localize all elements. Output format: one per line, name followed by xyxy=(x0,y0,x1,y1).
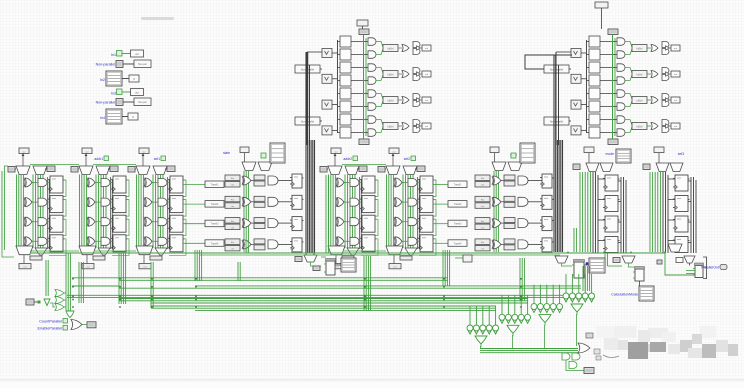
svg-text:out: out xyxy=(392,150,395,153)
output OR gate with outport xyxy=(71,320,96,330)
svg-text:cnt: cnt xyxy=(87,266,90,269)
svg-text:Transf3: Transf3 xyxy=(211,223,219,226)
svg-text:out: out xyxy=(425,125,428,128)
svg-text:out: out xyxy=(674,125,677,128)
demux below BUS2 with display scope and CalculationMode label xyxy=(611,256,654,301)
vertical green bus drop V10 xyxy=(443,250,450,286)
svg-text:Rst: Rst xyxy=(481,220,485,223)
svg-text:out: out xyxy=(135,92,139,95)
input inport In3 to outport bus_out2 xyxy=(111,89,144,96)
svg-text:Lim: Lim xyxy=(481,206,485,208)
const block above TOP1 xyxy=(357,20,368,29)
svg-text:Lim: Lim xyxy=(231,206,235,208)
svg-text:Lim: Lim xyxy=(481,185,485,187)
vertical green bus drop V1 xyxy=(46,260,48,296)
svg-text:ParallelOut: ParallelOut xyxy=(701,266,719,270)
svg-text:out: out xyxy=(425,73,428,76)
vertical green bus drop V5 xyxy=(151,262,153,308)
svg-text:bitSel: bitSel xyxy=(637,126,643,129)
black bus below TOP1 xyxy=(306,52,315,253)
green link wire bottom REG1-REG2 xyxy=(30,250,79,252)
demux below SR1 with display scope xyxy=(555,256,605,278)
combiner gate tree GT2 xyxy=(499,295,531,336)
svg-text:Non-parallel: Non-parallel xyxy=(96,101,116,105)
black bus below TOP2 xyxy=(554,55,563,252)
svg-text:out: out xyxy=(135,53,139,56)
svg-text:bitSel: bitSel xyxy=(637,74,643,77)
svg-text:O: O xyxy=(133,78,135,81)
svg-text:bitSel: bitSel xyxy=(388,126,394,129)
vertical green bus drop V6 xyxy=(195,250,202,281)
4-bit register cluster REG2 xyxy=(71,148,129,269)
green pair right of BUS2 flip-flops xyxy=(574,228,576,252)
green drop under SR1 flip-flops xyxy=(605,253,622,266)
svg-text:Lim: Lim xyxy=(231,249,235,251)
svg-text:out: out xyxy=(425,47,428,50)
svg-text:Lim: Lim xyxy=(231,227,235,229)
demux below BUS1 with display scope xyxy=(295,255,356,275)
svg-text:CountParallel: CountParallel xyxy=(39,320,62,324)
svg-text:Lim: Lim xyxy=(231,185,235,187)
svg-text:addr2: addr2 xyxy=(343,157,352,161)
decoder fan-out cluster TOP2 xyxy=(544,29,680,145)
svg-text:out: out xyxy=(85,150,88,153)
black bus elbow into demux TOP1 xyxy=(306,253,314,255)
svg-text:mode: mode xyxy=(606,152,615,156)
svg-text:sel1: sel1 xyxy=(154,157,160,161)
demux below SR2 to ParallelOut port xyxy=(657,244,727,279)
svg-text:Transf3: Transf3 xyxy=(454,223,462,226)
svg-text:addr1: addr1 xyxy=(94,157,103,161)
svg-text:Rst: Rst xyxy=(481,241,485,244)
green bus bundle D xyxy=(119,299,528,304)
svg-text:EnableParallel: EnableParallel xyxy=(38,327,63,331)
4-bit register cluster REG3 with transfer outports xyxy=(128,148,224,269)
decoder fan-out cluster TOP1 (8 gated taps to 4 outputs) xyxy=(295,29,431,145)
svg-text:Transf1: Transf1 xyxy=(211,184,219,187)
top gray scrollbar blob xyxy=(141,17,174,20)
green bus bundle C xyxy=(67,295,585,297)
vertical green bus drop V4 xyxy=(119,253,126,304)
green bus bundle B xyxy=(72,286,581,288)
svg-text:Non-par: Non-par xyxy=(138,101,147,104)
vertical green bus drop V9 xyxy=(364,256,371,311)
svg-text:Transf2: Transf2 xyxy=(211,203,219,206)
svg-text:Non-par: Non-par xyxy=(138,63,147,66)
vertical green bus drop V12 xyxy=(583,266,590,291)
green link wire bottom REG4-REG5 xyxy=(344,250,386,252)
final outport xyxy=(566,360,594,374)
small block above final OR xyxy=(586,333,593,338)
svg-text:In4: In4 xyxy=(100,116,105,120)
svg-text:O: O xyxy=(132,116,134,119)
4-bit register cluster REG5 with transfer outports xyxy=(378,148,467,269)
input inport Non_parallel1 to outport xyxy=(96,60,151,68)
vertical green bus drop V8 xyxy=(246,240,248,253)
svg-text:Transf4: Transf4 xyxy=(211,242,219,245)
svg-text:cnt: cnt xyxy=(336,266,339,269)
const block above TOP2 xyxy=(595,2,608,29)
svg-text:bitSel: bitSel xyxy=(388,100,394,103)
input inport In1 to outport bus_out1 xyxy=(111,50,144,57)
svg-text:cnt: cnt xyxy=(24,266,27,269)
small AND gate pair xyxy=(562,353,580,369)
vertical green bus drop V7 xyxy=(238,262,240,281)
label EnableParallel xyxy=(38,326,68,331)
svg-text:Non-parallel: Non-parallel xyxy=(96,63,116,67)
svg-text:out: out xyxy=(674,47,677,50)
svg-text:bitSel: bitSel xyxy=(637,48,643,51)
combiner gate tree GT1 xyxy=(467,306,499,347)
counter bus cluster BUS2 xyxy=(475,143,554,252)
label CountParallel xyxy=(39,319,67,324)
svg-text:In2: In2 xyxy=(100,78,105,82)
green link wire bottom REG2-REG3 xyxy=(95,250,136,252)
shift register column SR2 xyxy=(643,147,696,253)
svg-text:Non-parallel: Non-parallel xyxy=(550,121,564,124)
svg-text:bitSel: bitSel xyxy=(388,74,394,77)
band junction dots xyxy=(72,278,522,308)
green bus bundle A xyxy=(72,278,448,281)
long green wire under clusters xyxy=(30,252,695,276)
canvas bottom edge smear xyxy=(0,379,744,380)
input inport Non_parallel2 to outport xyxy=(96,98,151,106)
svg-text:state: state xyxy=(223,151,230,155)
svg-text:Rst: Rst xyxy=(231,177,235,180)
green link wire REG2-REG3 xyxy=(93,164,136,166)
svg-text:out: out xyxy=(22,150,25,153)
svg-text:out: out xyxy=(425,99,428,102)
vertical green bus drop V2 xyxy=(66,253,70,311)
svg-text:out: out xyxy=(142,150,145,153)
svg-text:In1: In1 xyxy=(111,53,116,57)
svg-text:In3: In3 xyxy=(111,92,116,96)
combiner gate tree GT4 xyxy=(563,274,595,315)
svg-text:bitSel: bitSel xyxy=(388,48,394,51)
svg-text:Transf1: Transf1 xyxy=(454,184,462,187)
svg-text:CalculationMode: CalculationMode xyxy=(611,293,638,297)
left edge green feed of REG1 xyxy=(2,166,14,257)
bottom-left combiner gates xyxy=(26,290,74,318)
svg-text:sel2: sel2 xyxy=(404,157,410,161)
svg-text:Rst: Rst xyxy=(231,241,235,244)
pixelated watermark mosaic xyxy=(596,326,738,359)
svg-text:Lim: Lim xyxy=(481,227,485,229)
svg-text:Rst: Rst xyxy=(481,199,485,202)
svg-text:sel3: sel3 xyxy=(678,152,684,156)
svg-text:cnt: cnt xyxy=(144,266,147,269)
svg-text:out: out xyxy=(674,73,677,76)
gate tree output wires xyxy=(480,314,578,353)
svg-text:out: out xyxy=(674,99,677,102)
small relay block right of REG5 outputs xyxy=(455,255,472,262)
svg-text:Lim: Lim xyxy=(481,249,485,251)
bus selector BusSel2 with outport Out2 xyxy=(100,109,138,124)
svg-text:Rst: Rst xyxy=(231,199,235,202)
green pair right of BUS1 flip-flops xyxy=(326,175,328,253)
green link wire REG1-REG2 xyxy=(30,164,79,166)
svg-text:Transf2: Transf2 xyxy=(454,203,462,206)
svg-text:cnt: cnt xyxy=(394,266,397,269)
svg-text:out: out xyxy=(334,150,337,153)
vertical green bus drop V11 xyxy=(520,258,524,301)
svg-text:bitSel: bitSel xyxy=(637,100,643,103)
svg-text:Transf4: Transf4 xyxy=(454,242,462,245)
svg-text:Non-parallel: Non-parallel xyxy=(550,69,564,72)
green link wire REG4-REG5 xyxy=(342,164,386,166)
shift register column SR1 xyxy=(573,147,631,253)
counter bus cluster BUS1 xyxy=(223,143,303,252)
combiner gate tree GT3 xyxy=(531,285,563,326)
bus selector BusSel1 with outport Out1 xyxy=(100,71,139,86)
svg-text:Rst: Rst xyxy=(481,177,485,180)
green bus bundle E xyxy=(151,306,496,310)
vertical green bus drop V3 xyxy=(79,262,83,303)
4-bit register cluster REG1 xyxy=(8,148,66,269)
4-bit register cluster REG4 xyxy=(320,148,378,269)
wire from TOP2 left to bus xyxy=(525,55,572,69)
annotation pencil glyphs xyxy=(594,349,619,360)
final OR gate xyxy=(578,343,590,353)
svg-text:Rst: Rst xyxy=(231,220,235,223)
